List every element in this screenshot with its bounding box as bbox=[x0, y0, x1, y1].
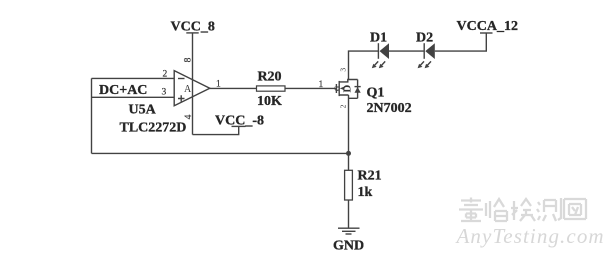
svg-text:G: G bbox=[333, 85, 341, 91]
resistor R20 bbox=[257, 86, 286, 91]
svg-text:3: 3 bbox=[338, 68, 347, 72]
body diode bbox=[355, 86, 361, 88]
svg-text:R21: R21 bbox=[358, 169, 382, 184]
wire D2 to VCCA_12 bbox=[435, 33, 487, 51]
drain stub and rail bbox=[339, 80, 357, 82]
svg-text:AnyTesting.com: AnyTesting.com bbox=[455, 224, 605, 248]
svg-text:TLC2272D: TLC2272D bbox=[120, 121, 187, 136]
wire pin4 to VCC_-8 bbox=[193, 126, 239, 134]
D1 emission arrows bbox=[373, 61, 385, 67]
svg-text:U5A: U5A bbox=[129, 103, 157, 118]
diode D1 bbox=[372, 43, 389, 68]
svg-text:GND: GND bbox=[333, 239, 364, 254]
power symbol VCC_8 bbox=[186, 32, 198, 34]
gate bar bbox=[335, 84, 337, 93]
svg-text:2: 2 bbox=[339, 104, 348, 108]
wire op-amp pin3 input (DC+AC) bbox=[92, 96, 175, 98]
source stub and rail bbox=[339, 95, 357, 98]
D2 emission arrows bbox=[419, 61, 431, 67]
svg-text:2: 2 bbox=[163, 70, 168, 80]
wire R20 to Q1 gate bbox=[285, 87, 337, 89]
wire Q1 drain up and to D1 bbox=[349, 51, 379, 79]
body arrow bbox=[340, 87, 345, 91]
ground bbox=[338, 228, 360, 234]
op-amp plus input marker bbox=[178, 95, 185, 102]
watermark Chinese text 嘉峪检测网 bbox=[459, 198, 586, 222]
svg-text:VCC_8: VCC_8 bbox=[171, 19, 215, 34]
svg-text:4: 4 bbox=[184, 114, 194, 119]
diode D2 bbox=[418, 43, 435, 68]
wire Q1 source down to junction bbox=[348, 95, 350, 153]
wire op-amp output to R20 bbox=[210, 87, 257, 89]
resistor R21 bbox=[345, 170, 353, 200]
svg-text:10K: 10K bbox=[257, 94, 282, 109]
body diode leg bbox=[357, 80, 359, 99]
svg-text:8: 8 bbox=[184, 57, 194, 62]
power symbol VCC_-8 bbox=[232, 125, 246, 127]
junction node at Q1 source / R21 / feedback bbox=[346, 151, 351, 156]
svg-text:3: 3 bbox=[162, 88, 167, 98]
svg-text:DC+AC: DC+AC bbox=[99, 83, 147, 98]
svg-text:D1: D1 bbox=[370, 31, 387, 46]
svg-text:A: A bbox=[184, 84, 192, 95]
svg-text:1: 1 bbox=[319, 80, 324, 90]
op-amp U5A triangle bbox=[174, 71, 210, 106]
wire op-amp pin2 input bbox=[92, 77, 175, 79]
wire inverting feedback left vertical bbox=[91, 78, 93, 153]
wire bottom feedback rail bbox=[92, 152, 349, 154]
svg-text:VCC_-8: VCC_-8 bbox=[215, 114, 264, 129]
op-amp power vertical wire (pins 8 and 4) bbox=[192, 33, 194, 135]
wire D1 to D2 bbox=[389, 50, 424, 52]
svg-text:1k: 1k bbox=[358, 185, 373, 200]
svg-text:2N7002: 2N7002 bbox=[367, 101, 412, 116]
op-amp minus input marker bbox=[178, 78, 185, 80]
svg-text:R20: R20 bbox=[257, 70, 281, 85]
wire R21 to ground bbox=[348, 200, 350, 228]
channel bar bbox=[338, 81, 340, 96]
svg-text:VCCA_12: VCCA_12 bbox=[457, 19, 518, 34]
svg-text:D: D bbox=[342, 85, 354, 93]
transistor Q1 2N7002 bbox=[333, 68, 360, 109]
power symbol VCCA_12 bbox=[480, 32, 493, 34]
svg-text:Q1: Q1 bbox=[367, 86, 385, 101]
svg-text:D2: D2 bbox=[416, 31, 433, 46]
wire junction to R21 bbox=[348, 153, 350, 170]
